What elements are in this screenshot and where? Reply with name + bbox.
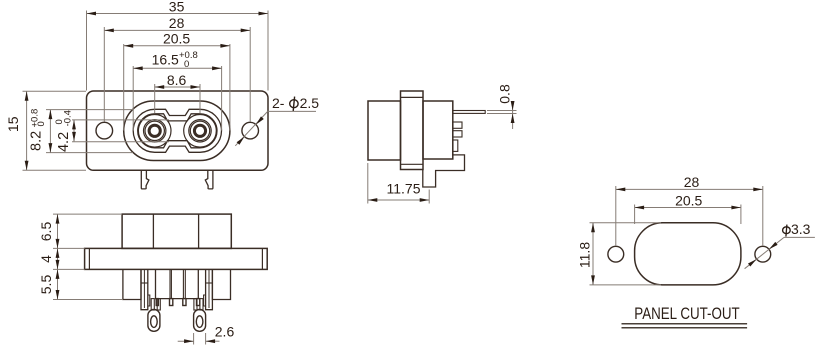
- dimension 4.2 0/-0.4: [73, 120, 75, 141]
- side view: flange: [401, 91, 424, 170]
- front view: flange outline: [87, 91, 269, 170]
- front view: left pin: [144, 120, 166, 142]
- side view: pcb bracket: [423, 152, 465, 188]
- panel cutout: left hole: [608, 246, 624, 262]
- bottom view: body top: [122, 214, 231, 248]
- front view: left mounting hole: [96, 122, 113, 139]
- dimension 11.8 extension lines: [590, 222, 662, 224]
- dimension 8.6: [155, 86, 200, 88]
- dimension 20.5 (panel): [635, 207, 741, 209]
- dimension 2.6 extension lines: [193, 333, 195, 345]
- dimension 8.2 +0.8/0: [49, 110, 51, 153]
- dimension 5.5: [57, 269, 59, 299]
- dimension 0.8 extension lines: [487, 110, 517, 112]
- dimension 28 extension lines: [103, 27, 105, 122]
- svg-text:8.6: 8.6: [167, 72, 187, 88]
- bottom view: flange bar: [85, 248, 268, 269]
- panel cutout: stadium slot: [635, 223, 741, 285]
- svg-text:11.8: 11.8: [577, 242, 593, 268]
- svg-text:20.5: 20.5: [675, 192, 702, 208]
- svg-text:0.8: 0.8: [497, 84, 513, 104]
- dimension 20.5 (panel) extension lines: [634, 205, 636, 225]
- dimension 35: [87, 13, 269, 15]
- dimension 6.5/4/5.5 extension lines: [53, 213, 122, 215]
- svg-text:8.2: 8.2: [29, 131, 45, 151]
- dimension 2.6: [178, 340, 194, 342]
- bottom view: left solder lug: [151, 299, 154, 310]
- svg-text:4: 4: [38, 255, 54, 263]
- dimension 20.5: [124, 45, 230, 47]
- svg-text:4.2: 4.2: [56, 132, 72, 152]
- front view: left pin lobe circle: [138, 115, 171, 148]
- dimension 15 extension lines: [23, 90, 87, 92]
- front view: left snap leg: [141, 170, 149, 189]
- svg-text:28: 28: [684, 174, 700, 190]
- side view: front body: [368, 101, 401, 160]
- dimension 28 (panel): [616, 188, 763, 190]
- svg-text:5.5: 5.5: [38, 275, 54, 295]
- dimension 28: [104, 29, 250, 31]
- dimension 11.75: [368, 199, 429, 201]
- front view: recess outer outline: [133, 109, 221, 152]
- svg-text:6.5: 6.5: [38, 222, 54, 242]
- front view: boss stadium: [124, 101, 230, 161]
- dimension 4: [57, 248, 59, 269]
- svg-text:-0.4: -0.4: [62, 110, 73, 126]
- front view: right snap leg: [205, 170, 213, 189]
- svg-text:35: 35: [169, 0, 185, 14]
- label 2-phi2.5 leader: [268, 110, 316, 112]
- dimension 8.6 extension lines: [154, 84, 156, 114]
- bottom view: right leg: [206, 269, 213, 309]
- bottom view: teeth: [156, 299, 158, 306]
- svg-text:16.5: 16.5: [152, 52, 179, 68]
- svg-text:2.6: 2.6: [215, 324, 235, 340]
- bottom view: right lower section: [212, 269, 230, 299]
- dimension 15: [26, 91, 28, 170]
- svg-text:0: 0: [184, 59, 189, 70]
- side view: rear body: [423, 101, 453, 159]
- bottom view: right solder lug: [194, 299, 197, 310]
- dimension 0.8: [512, 102, 514, 130]
- bottom view: left lower section: [123, 269, 141, 299]
- front view: recess inner outline: [138, 114, 217, 148]
- svg-text:3.3: 3.3: [791, 221, 811, 237]
- dimension 4.2 extension lines: [72, 119, 169, 121]
- svg-text:20.5: 20.5: [163, 31, 190, 47]
- dimension 11.8: [592, 223, 594, 285]
- label phi3.3 text: [783, 227, 791, 234]
- svg-text:2.5: 2.5: [300, 95, 320, 111]
- svg-text:PANEL CUT-OUT: PANEL CUT-OUT: [634, 304, 739, 323]
- dimension 20.5 extension lines: [123, 44, 125, 131]
- dimension 35 extension lines: [86, 11, 88, 91]
- svg-text:15: 15: [5, 116, 21, 132]
- bottom view: center block: [156, 269, 199, 298]
- svg-text:0: 0: [36, 121, 47, 126]
- dimension 8.2 extension lines: [46, 109, 133, 111]
- svg-text:11.75: 11.75: [387, 181, 421, 197]
- front view: right mounting hole: [242, 122, 259, 139]
- dimension 16.5 extension lines: [132, 66, 134, 131]
- side view: rear lugs: [453, 122, 462, 128]
- bottom view: left leg: [141, 269, 148, 309]
- svg-text:2-: 2-: [272, 95, 285, 111]
- dimension 11.75 extension lines: [367, 163, 369, 204]
- dimension 28 (panel) extension lines: [615, 186, 617, 246]
- svg-text:28: 28: [169, 15, 185, 31]
- side view: terminal pin: [453, 111, 485, 114]
- front view: right pin lobe circle: [184, 115, 217, 148]
- dimension 6.5: [57, 214, 59, 248]
- panel cutout: right hole: [755, 246, 771, 262]
- front view: right pin: [189, 120, 211, 142]
- label phi3.3 leader: [784, 236, 815, 238]
- dimension 16.5 +0.8/0: [133, 67, 221, 69]
